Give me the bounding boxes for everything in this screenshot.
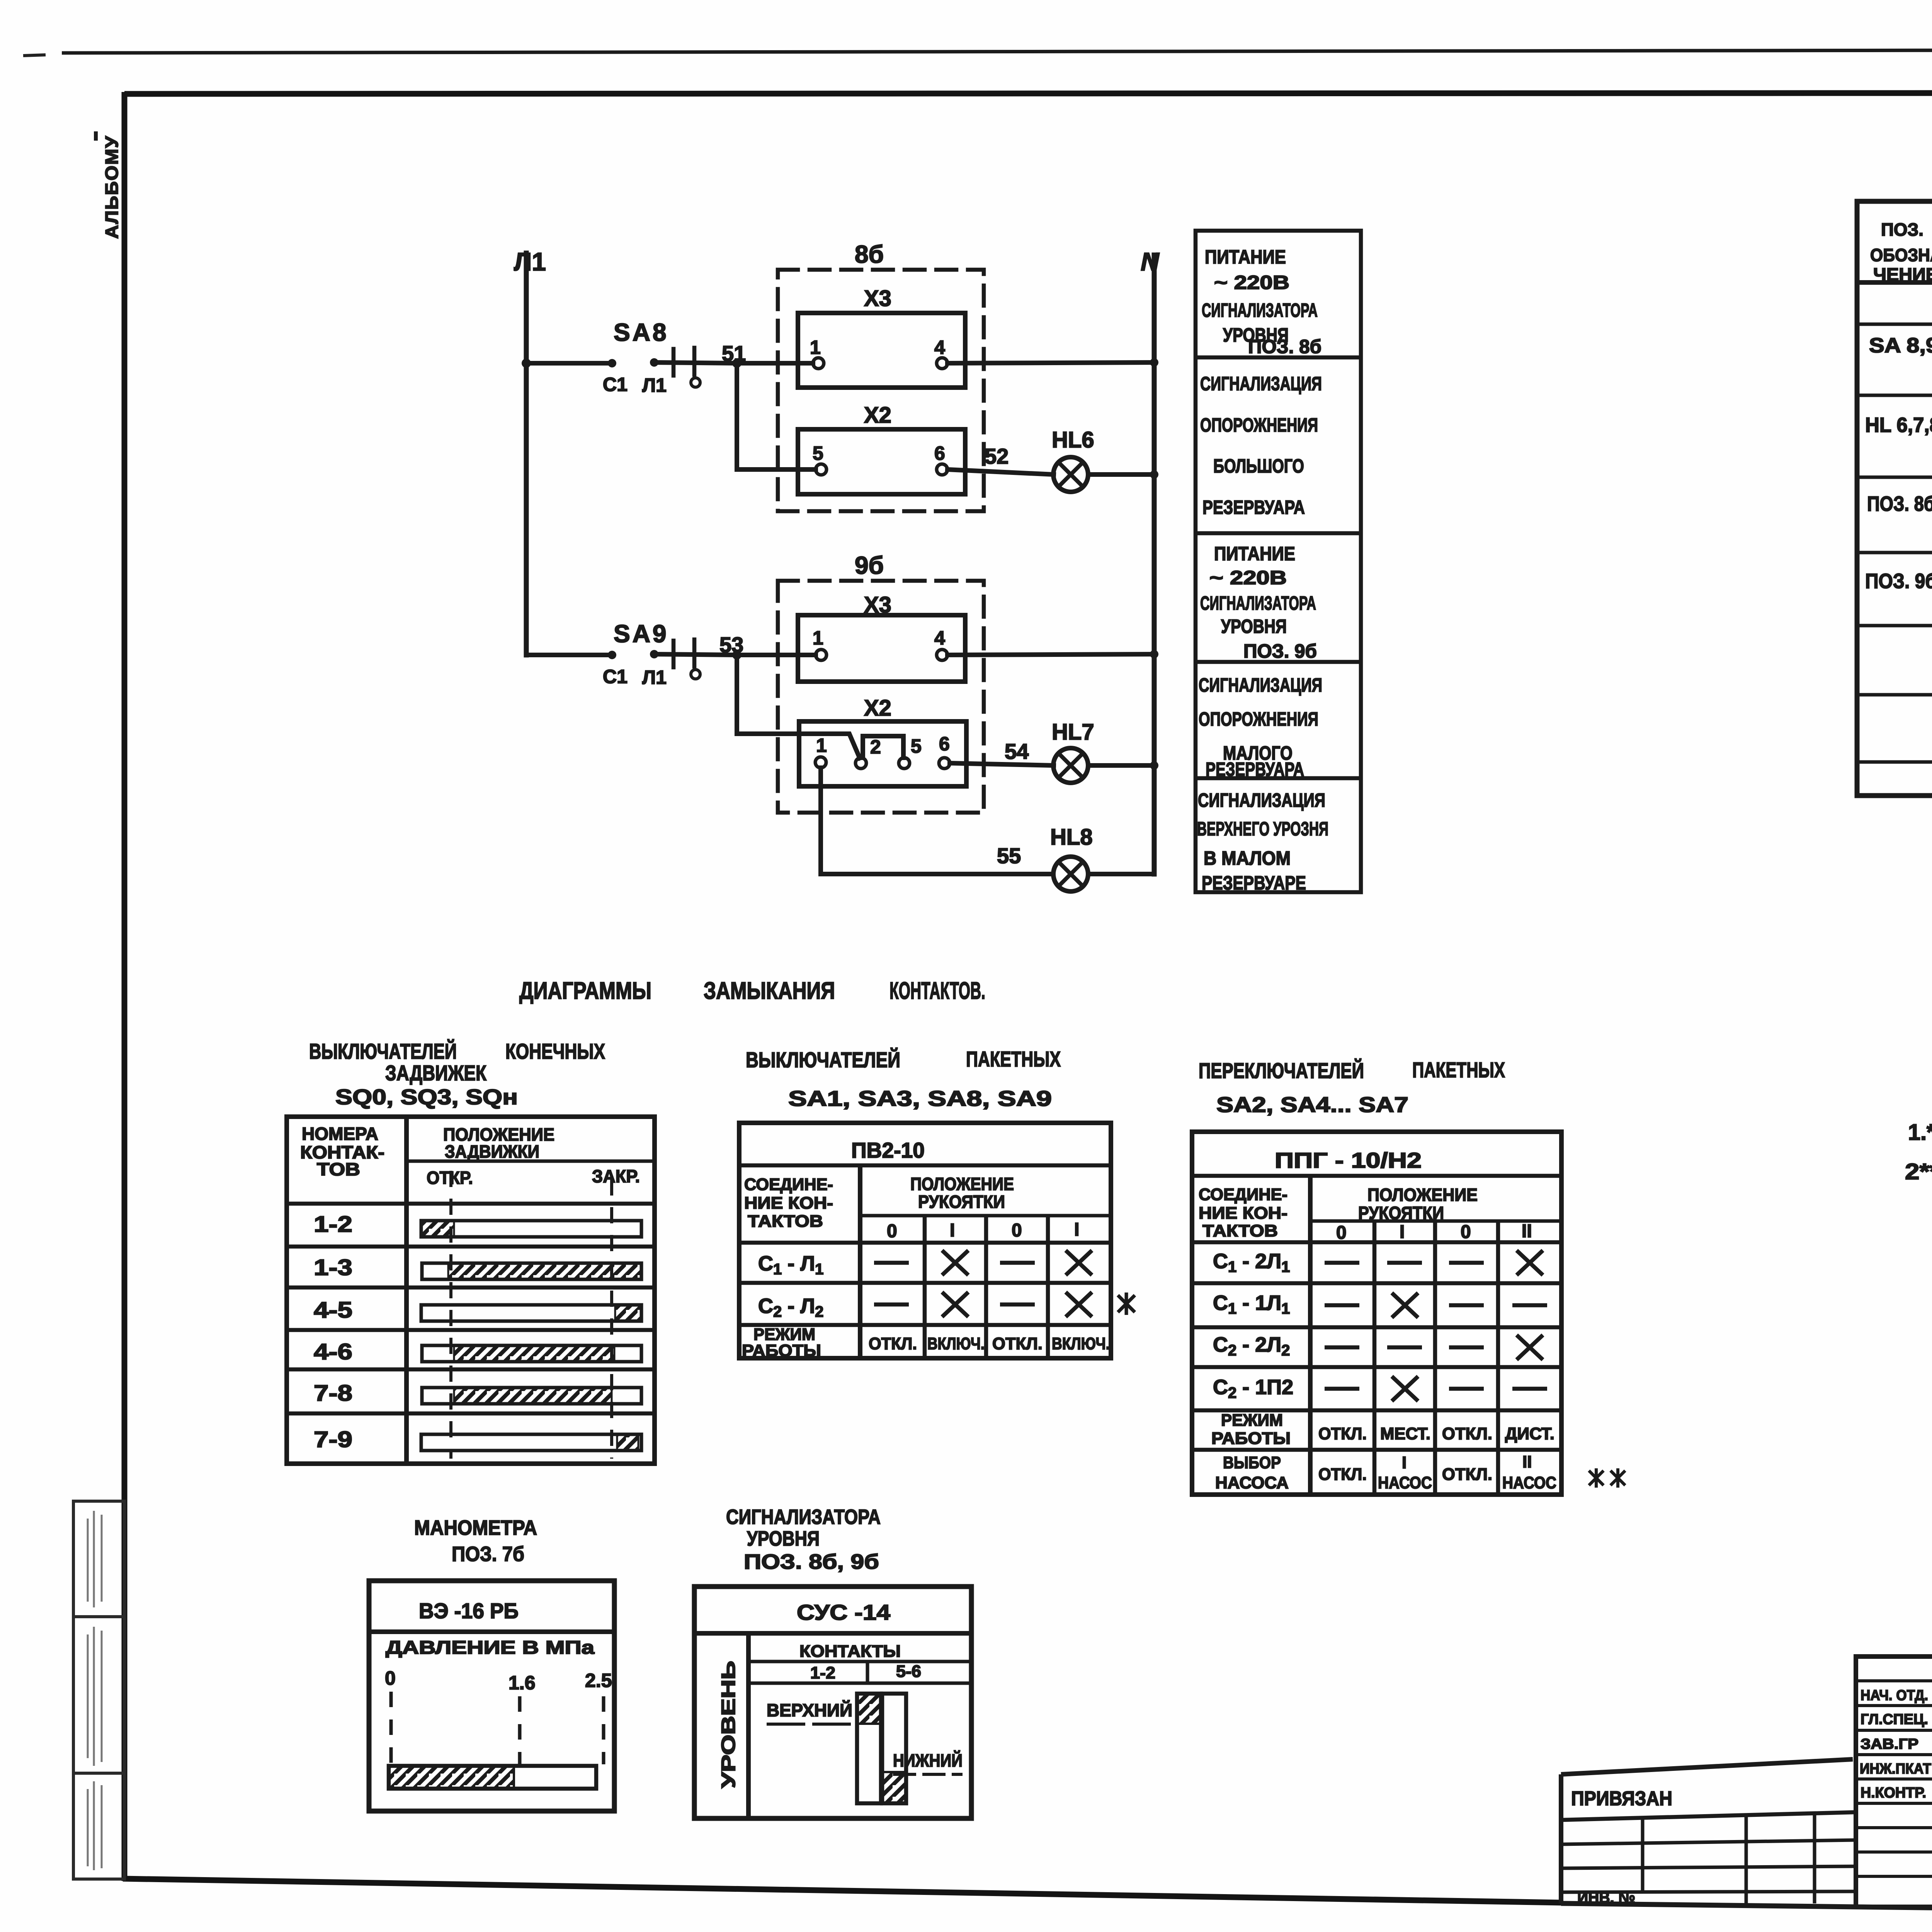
switch SA9 (packet switch)	[603, 620, 737, 688]
svg-text:Л1: Л1	[642, 667, 667, 688]
wire 52: X2-6 to lamp HL6	[947, 444, 1054, 474]
sheet top scan line	[23, 49, 1932, 56]
contact rows	[1213, 1250, 1293, 1401]
svg-text:N: N	[1141, 247, 1160, 276]
svg-text:РУКОЯТКИ: РУКОЯТКИ	[1358, 1203, 1444, 1223]
svg-text:II: II	[1522, 1221, 1532, 1242]
connector X3 of block 8б	[798, 286, 965, 388]
svg-text:СИГНАЛИЗАЦИЯ: СИГНАЛИЗАЦИЯ	[1198, 789, 1325, 811]
wire: lamp HL6 to bus N	[1088, 472, 1154, 477]
svg-text:РЕЗЕРВУАРА: РЕЗЕРВУАРА	[1202, 497, 1305, 518]
svg-text:РЕЖИМ: РЕЖИМ	[1221, 1411, 1283, 1430]
svg-text:С1 - Л1: С1 - Л1	[758, 1252, 823, 1278]
svg-text:КОНЕЧНЫХ: КОНЕЧНЫХ	[505, 1039, 605, 1063]
function description column (right of circuit)	[1196, 231, 1361, 894]
svg-text:ПОЛОЖЕНИЕ: ПОЛОЖЕНИЕ	[1367, 1185, 1478, 1205]
svg-text:1: 1	[810, 337, 821, 358]
svg-text:Н.КОНТР.: Н.КОНТР.	[1861, 1785, 1926, 1801]
svg-text:HL6: HL6	[1052, 427, 1094, 452]
svg-text:СОЕДИНЕ-: СОЕДИНЕ-	[1199, 1185, 1287, 1204]
svg-text:ПВ2-10: ПВ2-10	[851, 1138, 925, 1162]
svg-text:СУС -14: СУС -14	[797, 1600, 890, 1624]
svg-text:ОТКЛ.: ОТКЛ.	[992, 1334, 1043, 1353]
wire: Л1 to SA8	[526, 361, 612, 366]
table E: сигнализатора уровня поз.8б,9б	[694, 1505, 971, 1818]
svg-text:НИЕ КОН-: НИЕ КОН-	[1199, 1204, 1287, 1223]
notes	[1905, 1120, 1932, 1184]
row режим работы	[1211, 1411, 1554, 1448]
wire: Л1 corner to SA9	[526, 653, 612, 657]
svg-text:HL7: HL7	[1052, 719, 1094, 745]
left margin stamp boxes	[73, 1501, 124, 1879]
wire: node 53 to X3-1 (9б)	[737, 653, 816, 657]
svg-text:ПОЗ. 8б, 9б: ПОЗ. 8б, 9б	[744, 1550, 879, 1573]
parts list table: перечень элементов	[1857, 151, 1932, 796]
connector X2 of block 8б	[798, 403, 965, 494]
svg-text:C1: C1	[603, 374, 628, 395]
svg-text:1-3: 1-3	[314, 1255, 352, 1280]
footnote asterisk	[1118, 1293, 1135, 1315]
svg-text:КОНТАКТЫ: КОНТАКТЫ	[799, 1642, 901, 1661]
svg-text:54: 54	[1005, 739, 1029, 764]
svg-text:РУКОЯТКИ: РУКОЯТКИ	[918, 1192, 1005, 1212]
svg-text:Л1: Л1	[514, 247, 546, 276]
svg-text:ВЕРХНИЙ: ВЕРХНИЙ	[767, 1700, 852, 1720]
svg-text:SA 8,9: SA 8,9	[1869, 334, 1932, 357]
svg-text:НАСОС: НАСОС	[1502, 1473, 1556, 1492]
svg-text:2: 2	[870, 736, 881, 758]
wire: X3-4 (9б) to bus N	[947, 654, 1154, 655]
svg-text:ПОЗ. 7б: ПОЗ. 7б	[452, 1543, 524, 1566]
svg-text:SA8: SA8	[614, 318, 669, 346]
svg-text:МЕСТ.: МЕСТ.	[1380, 1424, 1430, 1443]
heading: диаграммы замыкания контактов	[519, 978, 985, 1004]
svg-text:ПОЛОЖЕНИЕ: ПОЛОЖЕНИЕ	[910, 1174, 1014, 1194]
svg-text:ОБОЗНА-: ОБОЗНА-	[1870, 245, 1932, 265]
node: N at HL6 wire	[1150, 470, 1158, 479]
svg-text:SA9: SA9	[614, 620, 669, 648]
svg-text:4: 4	[934, 337, 945, 358]
svg-text:ТОВ: ТОВ	[317, 1159, 360, 1179]
left margin stamp faint vertical text smudges	[88, 1511, 102, 1870]
svg-text:ВЫБОР: ВЫБОР	[1223, 1453, 1281, 1472]
lamp HL7	[1052, 719, 1094, 783]
wire: lamp HL7 to bus N	[1088, 763, 1154, 768]
svg-text:ПИТАНИЕ: ПИТАНИЕ	[1214, 543, 1295, 565]
svg-text:ПИТАНИЕ: ПИТАНИЕ	[1205, 246, 1286, 268]
travel bars with hatched closed zones	[421, 1221, 641, 1451]
svg-text:ОПОРОЖНЕНИЯ: ОПОРОЖНЕНИЯ	[1199, 708, 1318, 730]
svg-text:SA2, SA4... SA7: SA2, SA4... SA7	[1216, 1092, 1408, 1117]
svg-text:X3: X3	[864, 286, 891, 311]
svg-text:C1: C1	[603, 666, 628, 687]
svg-text:I: I	[1074, 1219, 1079, 1240]
svg-text:ОТКЛ.: ОТКЛ.	[1442, 1424, 1492, 1443]
svg-text:НОМЕРА: НОМЕРА	[302, 1124, 378, 1144]
svg-text:ДИАГРАММЫ: ДИАГРАММЫ	[519, 978, 651, 1004]
svg-text:X2: X2	[864, 403, 891, 428]
svg-text:6: 6	[939, 733, 950, 755]
svg-text:РАБОТЫ: РАБОТЫ	[1211, 1429, 1291, 1448]
svg-text:УРОВЕНЬ: УРОВЕНЬ	[718, 1661, 739, 1788]
привязан block	[1561, 1759, 1855, 1903]
wire 54: X2-6 to lamp HL7	[950, 739, 1054, 765]
double asterisk footnote	[1589, 1468, 1625, 1488]
svg-text:4: 4	[934, 627, 945, 649]
svg-text:ОТКЛ.: ОТКЛ.	[1442, 1465, 1492, 1484]
svg-text:52: 52	[985, 444, 1009, 468]
wire: branch node 53 down into X2-2 (9б)	[737, 655, 860, 758]
svg-text:ДАВЛЕНИЕ В МПа: ДАВЛЕНИЕ В МПа	[386, 1638, 594, 1658]
node: N at HL7 wire	[1150, 761, 1158, 770]
connector X3 of block 9б	[798, 592, 965, 682]
svg-text:С1 - 1Л1: С1 - 1Л1	[1213, 1291, 1290, 1317]
connector X2 of block 9б	[799, 696, 966, 786]
vertical margin label АЛЬБОМУ	[94, 131, 122, 239]
svg-text:ОТКЛ.: ОТКЛ.	[1318, 1465, 1367, 1484]
svg-text:8б: 8б	[855, 240, 884, 268]
svg-text:I: I	[950, 1220, 955, 1241]
svg-text:1: 1	[816, 735, 827, 756]
svg-text:ИНЖ.ПКАТ: ИНЖ.ПКАТ	[1860, 1761, 1931, 1777]
svg-text:0: 0	[1336, 1223, 1347, 1243]
svg-text:~ 220В: ~ 220В	[1214, 272, 1289, 293]
svg-text:1.* КОНТАКТЫ НЕ ИСПОЛЬЗУЮТС: 1.* КОНТАКТЫ НЕ ИСПОЛЬЗУЮТСЯ	[1908, 1120, 1932, 1145]
wire: node 51 to X3-1	[737, 361, 813, 366]
svg-text:ВЫКЛЮЧАТЕЛЕЙ: ВЫКЛЮЧАТЕЛЕЙ	[309, 1039, 457, 1063]
node 51	[722, 341, 746, 368]
svg-text:УРОВНЯ: УРОВНЯ	[1221, 616, 1287, 637]
svg-text:Л1: Л1	[642, 374, 667, 396]
svg-text:HL 6,7,8: HL 6,7,8	[1865, 413, 1932, 437]
svg-text:НАСОС: НАСОС	[1378, 1473, 1432, 1492]
svg-text:ЧЕНИЕ: ЧЕНИЕ	[1873, 264, 1932, 284]
svg-text:СИГНАЛИЗАТОРА: СИГНАЛИЗАТОРА	[1202, 299, 1318, 321]
row режим работы	[742, 1325, 1110, 1360]
svg-text:1-2: 1-2	[314, 1212, 352, 1237]
svg-text:ППГ - 10/Н2: ППГ - 10/Н2	[1275, 1148, 1422, 1172]
svg-text:9б: 9б	[855, 551, 884, 579]
svg-text:РЕЗЕРВУАРЕ: РЕЗЕРВУАРЕ	[1202, 872, 1306, 894]
svg-text:SQ0, SQ3, SQн: SQ0, SQ3, SQн	[335, 1085, 518, 1109]
pressure scale dashed marks	[391, 1692, 604, 1764]
lamp HL6	[1052, 427, 1094, 492]
converter block 8б (dashed boundary)	[778, 240, 984, 511]
table grid	[1857, 201, 1932, 796]
svg-text:СИГНАЛИЗАТОРА: СИГНАЛИЗАТОРА	[1200, 592, 1316, 614]
svg-text:ЗАДВИЖЕК: ЗАДВИЖЕК	[385, 1061, 487, 1085]
node: N at wire from X3-4 (9б)	[1150, 650, 1158, 658]
svg-text:~ 220В: ~ 220В	[1209, 567, 1287, 588]
bus Л1 (left phase rail)	[514, 247, 546, 655]
node: junction on bus Л1 at SA8 row	[522, 359, 531, 368]
node 53	[719, 633, 743, 660]
svg-text:БОЛЬШОГО: БОЛЬШОГО	[1213, 455, 1304, 477]
svg-text:ПОЗ. 9б: ПОЗ. 9б	[1243, 640, 1317, 662]
lamp HL8	[1050, 825, 1093, 891]
svg-text:SA1, SA3, SA8, SA9: SA1, SA3, SA8, SA9	[788, 1086, 1052, 1111]
svg-text:НИЕ КОН-: НИЕ КОН-	[744, 1194, 833, 1213]
svg-text:ВЭ -16 РБ: ВЭ -16 РБ	[419, 1599, 519, 1623]
level bars	[857, 1694, 906, 1803]
svg-text:7-8: 7-8	[314, 1381, 352, 1406]
svg-text:С2 - Л2: С2 - Л2	[758, 1294, 823, 1320]
svg-text:ЗАМЫКАНИЯ: ЗАМЫКАНИЯ	[704, 978, 835, 1004]
svg-text:СИГНАЛИЗАТОРА: СИГНАЛИЗАТОРА	[726, 1505, 881, 1529]
svg-text:ВЕРХНЕГО УРОЗНЯ: ВЕРХНЕГО УРОЗНЯ	[1197, 818, 1328, 840]
svg-text:4-5: 4-5	[314, 1298, 352, 1323]
svg-text:С2 - 2Л2: С2 - 2Л2	[1213, 1333, 1290, 1359]
level labels	[767, 1700, 963, 1770]
svg-text:НИЖНИЙ: НИЖНИЙ	[893, 1750, 963, 1770]
svg-text:X2: X2	[864, 696, 891, 721]
signature table	[1856, 1656, 1932, 1907]
wire: X3-4 to bus N	[947, 362, 1154, 363]
svg-text:0: 0	[1012, 1220, 1022, 1241]
svg-text:1.6: 1.6	[509, 1672, 536, 1694]
svg-text:ПОЗ. 8б: ПОЗ. 8б	[1248, 336, 1321, 357]
table D: манометра поз.7б	[369, 1516, 614, 1811]
svg-text:РАБОТЫ: РАБОТЫ	[742, 1341, 821, 1360]
wire 55: X2-1 (9б) down and right to lamp HL8	[821, 768, 1053, 874]
contact row labels	[314, 1212, 352, 1452]
converter block 9б (dashed boundary)	[778, 551, 984, 813]
svg-text:ОТКЛ.: ОТКЛ.	[1318, 1424, 1367, 1443]
main title area	[1561, 1656, 1932, 1913]
svg-text:5-6: 5-6	[896, 1662, 921, 1681]
svg-text:ОПОРОЖНЕНИЯ: ОПОРОЖНЕНИЯ	[1200, 414, 1318, 436]
node: N at wire from X3-4	[1150, 358, 1158, 367]
svg-text:НАСОСА: НАСОСА	[1215, 1473, 1289, 1492]
svg-text:ТАКТОВ: ТАКТОВ	[748, 1212, 823, 1231]
svg-text:В МАЛОМ: В МАЛОМ	[1204, 847, 1291, 869]
svg-text:5: 5	[911, 735, 922, 757]
svg-text:ПРИВЯЗАН: ПРИВЯЗАН	[1571, 1787, 1672, 1810]
svg-text:ДИСТ.: ДИСТ.	[1505, 1424, 1554, 1443]
svg-text:ГЛ.СПЕЦ.: ГЛ.СПЕЦ.	[1861, 1711, 1928, 1728]
svg-text:ВКЛЮЧ.: ВКЛЮЧ.	[927, 1334, 985, 1353]
pressure bar	[389, 1766, 596, 1789]
svg-text:С1 - 2Л1: С1 - 2Л1	[1213, 1250, 1290, 1276]
svg-text:С2 - 1П2: С2 - 1П2	[1213, 1376, 1293, 1401]
svg-text:РЕЗЕРВУАРА: РЕЗЕРВУАРА	[1206, 759, 1304, 780]
svg-text:КОНТАКТОВ.: КОНТАКТОВ.	[889, 978, 985, 1004]
svg-text:ВКЛЮЧ.: ВКЛЮЧ.	[1052, 1334, 1110, 1353]
header texts	[1870, 219, 1932, 284]
svg-text:ТАКТОВ: ТАКТОВ	[1202, 1221, 1278, 1240]
svg-text:0: 0	[887, 1221, 897, 1242]
svg-text:ПАКЕТНЫХ: ПАКЕТНЫХ	[966, 1047, 1061, 1071]
svg-text:МАНОМЕТРА: МАНОМЕТРА	[414, 1516, 537, 1539]
svg-text:ЗАКР.: ЗАКР.	[592, 1166, 640, 1186]
svg-text:ПОЗ. 9б: ПОЗ. 9б	[1865, 570, 1932, 593]
svg-text:0: 0	[1461, 1222, 1471, 1242]
svg-text:0: 0	[385, 1667, 396, 1689]
switch SA8 (packet switch)	[603, 318, 737, 396]
table C: переключателей пакетных SA2 SA4 SA7	[1192, 1058, 1625, 1495]
svg-text:HL8: HL8	[1050, 825, 1093, 850]
svg-text:6: 6	[934, 442, 945, 464]
svg-text:СИГНАЛИЗАЦИЯ: СИГНАЛИЗАЦИЯ	[1199, 674, 1322, 696]
svg-text:УРОВНЯ: УРОВНЯ	[747, 1527, 820, 1550]
contact row С1-Л1	[758, 1252, 823, 1320]
title block (штамп)	[1561, 1656, 1932, 1913]
svg-text:2.5: 2.5	[585, 1670, 612, 1691]
svg-text:4-6: 4-6	[314, 1339, 352, 1364]
wire: branch node 51 down to X2-5	[737, 363, 816, 469]
table B: выключателей пакетных SA1 SA3 SA8 SA9	[739, 1047, 1135, 1360]
dashed travel reference lines	[451, 1171, 612, 1459]
svg-text:ЗАДВИЖКИ: ЗАДВИЖКИ	[445, 1141, 539, 1162]
svg-text:ЗАВ.ГР: ЗАВ.ГР	[1861, 1736, 1918, 1752]
wire: internal jumper X2-2 to X2-5 (9б)	[863, 736, 903, 758]
svg-text:55: 55	[997, 844, 1021, 868]
svg-text:1: 1	[813, 627, 823, 649]
svg-text:I: I	[1400, 1222, 1405, 1242]
svg-text:2** ТОЛЬКО ДЛЯ SA6: 2** ТОЛЬКО ДЛЯ SA6	[1905, 1159, 1932, 1184]
svg-text:СИГНАЛИЗАЦИЯ: СИГНАЛИЗАЦИЯ	[1200, 373, 1322, 395]
table A: выключателей конечных задвижек SQ0 SQ3 SQн	[287, 1039, 655, 1464]
svg-text:ПОЗ. 8б: ПОЗ. 8б	[1867, 492, 1932, 515]
svg-text:ПОЗ.: ПОЗ.	[1881, 219, 1923, 240]
column Поз. обозначение values	[1865, 334, 1932, 593]
svg-text:7-9: 7-9	[314, 1427, 352, 1452]
svg-text:II: II	[1522, 1452, 1532, 1471]
svg-text:ПЕРЕКЛЮЧАТЕЛЕЙ: ПЕРЕКЛЮЧАТЕЛЕЙ	[1199, 1058, 1364, 1083]
svg-text:I: I	[1402, 1453, 1406, 1472]
svg-text:НАЧ. ОТД.: НАЧ. ОТД.	[1861, 1687, 1928, 1704]
svg-text:ВЫКЛЮЧАТЕЛЕЙ: ВЫКЛЮЧАТЕЛЕЙ	[746, 1048, 900, 1072]
svg-text:СОЕДИНЕ-: СОЕДИНЕ-	[744, 1175, 833, 1194]
wire: lamp HL8 to bus N	[1088, 872, 1154, 876]
bus N (right neutral rail)	[1141, 247, 1160, 874]
svg-text:ОТКЛ.: ОТКЛ.	[869, 1334, 917, 1353]
svg-text:1-2: 1-2	[810, 1663, 835, 1682]
svg-text:5: 5	[813, 442, 823, 464]
row выбор насоса	[1215, 1452, 1556, 1492]
svg-text:ПАКЕТНЫХ: ПАКЕТНЫХ	[1412, 1058, 1505, 1082]
svg-text:АЛЬБОМУ: АЛЬБОМУ	[102, 135, 122, 239]
